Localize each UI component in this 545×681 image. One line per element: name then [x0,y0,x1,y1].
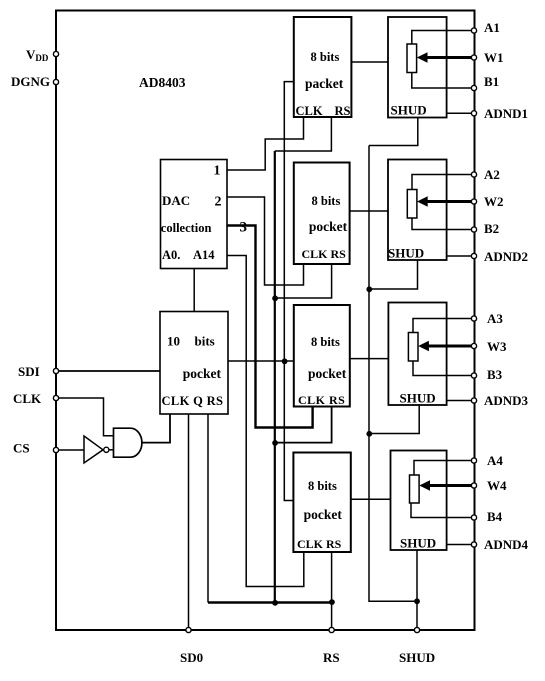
wire inverter to AND [109,449,114,451]
wiper arrow W2 [426,200,474,203]
wire SHUD bus vertical [369,146,417,602]
wire pot1 SHUD down to bus [369,118,418,146]
wire ADND4 [447,544,474,546]
svg-text:CLK: CLK [13,391,42,406]
svg-text:8 bits: 8 bits [311,335,340,349]
wire R2 top to pin A2 [412,175,474,190]
svg-text:B4: B4 [487,509,503,524]
pin B1 [471,85,476,90]
wiper arrow W4 [428,484,474,487]
inverter U2 [84,436,103,463]
resistor R4 [410,475,420,503]
wire ADND3 [447,400,474,402]
node RS junction 2 [272,295,278,301]
wire pot4 SHUD down to bottom pin [416,550,418,630]
node SHUD bus bottom [414,598,420,604]
pin SD0 [186,627,191,632]
svg-text:10: 10 [167,334,180,349]
potentiometer block 4 [391,451,447,551]
AND gate U3 [114,428,142,457]
register U8: 8 bits pocket 3 [294,305,350,407]
wire 10-bit RS down [207,414,209,603]
pin W2 [471,199,476,204]
svg-text:DGNG: DGNG [11,74,50,89]
register U6: 8 bits packet 1 [294,17,352,117]
wire SDI to 10-bit register [59,370,160,372]
node RS junction register4 [329,599,335,605]
wire 10-bit serial output to register3 input [228,360,294,362]
pin B3 [471,373,476,378]
resistor R1 [407,44,417,73]
svg-text:SHUD: SHUD [388,246,424,261]
svg-text:pocket: pocket [183,366,222,381]
pin W3 [471,343,476,348]
wire pot2 SHUD down to bus [369,260,418,289]
pin ADND4 [471,542,476,547]
resistor R2 [407,190,417,219]
register U7: 8 bits pocket 2 [294,163,350,265]
svg-text:CLK: CLK [296,104,323,118]
wiper arrow W3 [427,345,474,348]
node SHUD bus pot2 [366,286,372,292]
wiper arrow W1 [426,56,474,59]
wire DAC A14 output to register4 CLK [227,256,304,587]
pin W1 [471,55,476,60]
pin A1 [471,28,476,33]
wire 10-bit Q to SD0 [188,414,190,630]
svg-text:ADND1: ADND1 [484,106,528,121]
wire register4 RS to bottom pin [331,552,333,630]
svg-text:CLK RS: CLK RS [302,247,347,261]
svg-text:ADND2: ADND2 [484,249,528,264]
wire RS branch to register2 [275,264,332,298]
wire R1 bottom to pin B1 [412,73,474,89]
wire R3 top to pin A3 [413,319,474,333]
svg-text:2: 2 [215,195,222,210]
pin B4 [471,515,476,520]
wire ADND1 [447,112,474,114]
svg-text:ADND3: ADND3 [484,393,529,408]
pin A3 [471,316,476,321]
svg-text:A2: A2 [484,167,500,182]
svg-text:RS: RS [323,650,340,665]
wire R2 bottom to pin B2 [412,218,474,230]
resistor R3 [408,333,418,362]
wire DAC output 3 to register3 CLK [227,226,313,428]
svg-text:pocket: pocket [309,219,348,234]
node serial bus junction [282,358,288,364]
wire DAC output 2 to register2 CLK [227,197,304,285]
svg-text:CLK RS: CLK RS [298,393,345,407]
svg-text:A4: A4 [487,453,503,468]
svg-text:AD8403: AD8403 [139,75,186,90]
svg-text:A14: A14 [193,248,215,262]
svg-text:B3: B3 [487,367,503,382]
node SHUD bus pot3 [366,431,372,437]
svg-text:B1: B1 [484,74,499,89]
svg-text:W1: W1 [484,50,504,65]
DAC collection block U4 [161,160,228,269]
wire register1 to pot1 wiper [351,61,388,63]
svg-text:pocket: pocket [308,366,347,381]
svg-text:DAC: DAC [162,193,190,208]
wire pot3 SHUD down to bus [369,405,419,434]
svg-text:8 bits: 8 bits [312,194,341,208]
pin A2 [471,172,476,177]
svg-text:8 bits: 8 bits [308,479,337,493]
wire R4 top to pin A4 [414,461,474,476]
pin RS [329,627,334,632]
wire RS bus vertical [274,151,276,603]
svg-text:SHUD: SHUD [391,103,427,118]
svg-text:W3: W3 [487,339,507,354]
svg-text:RS: RS [335,104,351,118]
svg-text:8 bits: 8 bits [311,50,340,64]
wire CS to inverter [59,449,84,451]
wire RS branch to register3 [275,406,332,442]
wire ADND2 [447,255,474,257]
svg-text:W4: W4 [487,478,507,493]
wire CLK to AND gate [59,398,114,436]
svg-text:ADND4: ADND4 [484,537,529,552]
wire serial data bus [284,82,294,501]
wire RS bottom bus [208,601,332,603]
pin A4 [471,458,476,463]
potentiometer block 1 [388,17,447,118]
svg-text:1: 1 [214,164,221,179]
svg-text:CLK RS: CLK RS [297,537,342,551]
svg-text:SHUD: SHUD [400,391,436,406]
svg-text:SHUD: SHUD [400,536,436,551]
pin W4 [471,483,476,488]
wire register4 to pot4 wiper [351,498,391,500]
potentiometer block 2 [388,160,447,261]
pin ADND3 [471,398,476,403]
svg-text:3: 3 [240,220,248,236]
svg-text:bits: bits [195,334,215,349]
wire R3 bottom to pin B3 [413,361,474,376]
wire R4 bottom to pin B4 [411,503,474,518]
pin ADND2 [471,253,476,258]
svg-text:B2: B2 [484,221,499,236]
pin B2 [471,227,476,232]
svg-text:A3: A3 [487,311,503,326]
svg-text:collection: collection [161,221,212,235]
wire DAC output 1 to register1 CLK [227,117,304,170]
potentiometer block 3 [388,303,446,406]
10-bit register U5 [160,312,228,415]
svg-text:A0.: A0. [162,248,180,262]
wire R1 top to pin A1 [412,31,474,45]
svg-text:A1: A1 [484,20,500,35]
wire register2 to pot2 wiper [350,210,388,212]
svg-text:SHUD: SHUD [399,650,435,665]
svg-text:packet: packet [305,76,344,91]
svg-text:pocket: pocket [304,507,343,522]
wire DAC bottom to 10-bit register top [193,269,195,312]
outer border of AD8403 [56,11,475,631]
register U9: 8 bits pocket 4 [293,453,350,553]
svg-text:CS: CS [13,441,30,456]
svg-text:SD0: SD0 [180,650,203,665]
pin SHUD [414,627,419,632]
node RS junction 3 [272,440,278,446]
wire AND output to 10-bit CLK [142,414,171,443]
pin ADND1 [471,111,476,116]
wire register3 to pot3 wiper [350,358,388,360]
node RS junction bottom [272,600,278,606]
svg-text:CLK Q RS: CLK Q RS [162,394,224,408]
svg-text:SDI: SDI [18,364,40,379]
svg-text:W2: W2 [484,194,504,209]
wire register1 RS down [275,117,332,151]
